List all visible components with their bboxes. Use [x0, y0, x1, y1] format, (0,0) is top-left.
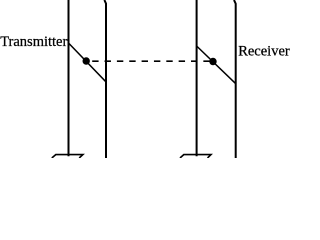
svg-text:Transmitter: Transmitter [0, 34, 67, 50]
svg-text:Receiver: Receiver [238, 44, 290, 60]
